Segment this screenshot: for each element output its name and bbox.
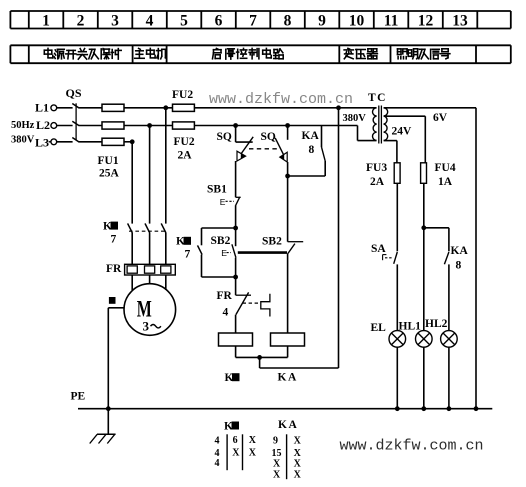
node: lamp common on PE [474,406,479,411]
node: HL2 branch tap [421,225,426,230]
svg-text:X: X [294,458,302,469]
svg-text:X: X [232,448,240,459]
svg-text:12: 12 [418,12,434,29]
svg-text:FU2: FU2 [172,89,193,101]
lamp HL1 [416,331,433,348]
node: return line tap on L1 [336,105,341,110]
wire control return line to L1 [338,108,340,368]
fuse FU4 [421,163,427,184]
terminal circle L2 [51,123,57,129]
svg-text:X: X [294,469,302,480]
node: HL2 on PE [447,406,452,411]
svg-text:9: 9 [318,12,326,29]
svg-text:3: 3 [111,12,119,29]
label L1 [35,101,49,115]
node: EL on PE [395,406,400,411]
header label: power switch and protection (dian yuan kai guan ji bao hu) [44,48,121,59]
label QS [66,86,82,100]
node: control branch 1 tap on L2 [233,123,238,128]
fuse FU1 pole 3 [102,138,124,145]
svg-text:EL: EL [371,322,387,334]
motor frame earth connection [108,297,124,409]
thermal relay FR contact (NC) [236,277,270,333]
svg-text:FU3: FU3 [366,162,387,174]
watermark www.dzkfw.com.cn (top, grey) [209,91,353,108]
svg-text:4: 4 [215,448,220,459]
svg-text:7: 7 [249,12,257,29]
label FU4 1A [435,162,456,188]
label FU3 2A [366,162,387,188]
contactor coil KM [219,333,253,346]
svg-text:7: 7 [185,249,191,261]
wire motor phase drops to KM contacts [132,108,166,224]
svg-text:HL1: HL1 [399,321,422,333]
wire EL to PE bar [396,347,398,409]
wire L1 from FU1 to FU2 [124,107,173,109]
KM contact usage table [215,434,257,470]
svg-text:380V: 380V [343,113,367,124]
label L2 [36,118,50,132]
svg-text:KA: KA [278,419,298,431]
label KA (coil) [278,372,298,384]
header label: lighting and signal (zhao ming ji xin hao) [398,49,450,59]
label 380V supply [11,135,35,146]
limit switch SQ contact 1 [236,126,254,198]
label 6V [433,112,448,124]
pushbutton SB1 (NC) [220,197,241,228]
svg-text:X: X [249,435,257,446]
pushbutton SB2 (NO, start) [221,228,236,277]
svg-text:E: E [220,197,226,207]
motor M 3~ [124,284,176,336]
svg-text:2A: 2A [370,176,385,188]
svg-text:24V: 24V [392,126,413,138]
pushbutton SB2 (NC half) [288,176,304,333]
svg-text:4: 4 [146,12,154,29]
svg-text:KA: KA [278,372,298,384]
label 380V (TC primary) [343,113,367,124]
svg-text:15: 15 [272,448,282,459]
svg-text:SB1: SB1 [207,183,227,195]
node: parallel box top [233,226,238,231]
label SQ (right) [261,131,276,143]
node: control branch 2 tap on L2 [285,123,290,128]
svg-text:X: X [294,448,302,459]
svg-text:4: 4 [223,306,229,318]
label 50Hz [11,120,35,131]
svg-text:FR: FR [106,263,122,275]
label 25A [99,168,120,180]
svg-text:SQ: SQ [261,131,276,143]
node: L1 tap to motor branch [163,105,168,110]
label KM (contact table header) [224,420,239,432]
switch SA (lighting) [383,252,398,331]
svg-text:2A: 2A [178,150,193,162]
svg-text:E: E [221,248,227,258]
wire FU3 to switch SA [396,183,398,251]
label KA (contact table header) [278,419,298,431]
svg-text:FU1: FU1 [98,155,119,167]
svg-text:380V: 380V [11,135,35,146]
svg-text:SA: SA [371,243,386,255]
svg-text:50Hz: 50Hz [11,120,35,131]
svg-text:FU4: FU4 [435,162,456,174]
node: parallel box bottom [233,275,238,280]
contactor KM main contacts [128,223,166,264]
transformer TC core [379,106,382,144]
fuse FU2 pole 2 [173,122,195,129]
svg-text:PE: PE [71,391,86,403]
svg-text:9: 9 [273,436,278,447]
wire parallel branch (KM self-hold loop) [202,228,236,277]
label SB2 (NO) [211,235,231,247]
wire HL1 to PE bar [423,347,425,409]
contactor KM auxiliary contact (self-hold) [198,245,203,254]
svg-text:L3: L3 [35,136,49,150]
label KM 7 (aux contact) [176,236,191,261]
label SQ (left) [217,131,232,143]
node: KA branch joins SQ2 branch [285,174,290,179]
svg-text:X: X [294,436,302,447]
svg-text:4: 4 [215,435,220,446]
PE protective earth bar [78,408,492,410]
wire HL2 to PE bar [448,347,450,409]
fuse FU2 pole 1 [173,104,195,111]
terminal circle L3 [49,139,57,145]
svg-text:8: 8 [456,260,462,272]
svg-text:www.dzkfw.com.cn: www.dzkfw.com.cn [340,438,484,455]
wires FR to motor [132,275,166,290]
node: L2 tap to motor branch [147,123,152,128]
label HL1 [399,321,422,333]
watermark www.dzkfw.com.cn (bottom right, dark) [340,438,484,455]
svg-text:TC: TC [368,92,387,104]
svg-text:10: 10 [349,12,365,29]
svg-text:8: 8 [284,12,292,29]
svg-text:SB2: SB2 [262,236,282,248]
header label: transformer (bian ya qi) [344,48,377,58]
label SB2 (NC) [262,236,282,248]
svg-text:11: 11 [384,12,399,29]
svg-text:FR: FR [217,290,233,302]
svg-text:KA: KA [451,245,469,257]
svg-text:KA: KA [302,130,320,142]
ground symbol [90,409,116,444]
svg-text:L2: L2 [36,118,50,132]
label TC [368,92,387,104]
header label: start-stop control circuit (qi ting kong zhi dian lu) [213,48,284,59]
header row 2: section strip [10,45,510,63]
wire L3 from FU1 to branch [124,141,132,143]
node: coil bottom junction [257,355,262,360]
wire secondary top to lamp common [384,108,476,409]
header label: main motor (zhu dian ji) [135,48,167,58]
label FU2 (top) [172,89,193,101]
node: motor earth on PE [106,406,111,411]
wire FU4 down to HL1 [423,183,425,330]
fuse FU1 pole 2 [102,122,124,129]
disconnect switch QS [57,103,102,142]
fuse FU1 pole 1 [102,104,124,111]
label KM (coil) [225,372,240,384]
wire branch to KA lamp contact [424,228,449,252]
header row 1 numbers 1-13 [42,12,468,29]
relay contact KA (lamp) [444,252,449,331]
thermal relay FR heater box [125,264,176,275]
wire L2 from FU2 to TC primary bottom [194,126,376,141]
wire secondary 6V tap to FU4 [385,116,425,163]
label FR 4 (control contact) [217,290,233,319]
svg-text:2: 2 [77,12,85,29]
label 24V [392,126,413,138]
label L3 [35,136,49,150]
KA contact usage table [272,434,302,480]
label KA 8 (upper contact) [302,130,320,156]
label FU1 [98,155,119,167]
svg-text:25A: 25A [99,168,120,180]
label KA 8 (lamp contact) [451,245,469,272]
label PE [71,391,86,403]
label KM 7 (main contacts) [103,220,118,245]
svg-text:X: X [273,458,281,469]
svg-text:SB2: SB2 [211,235,231,247]
label SB1 [207,183,227,195]
wire secondary bottom to FU3 [384,141,397,163]
svg-text:FU2: FU2 [174,136,195,148]
mechanical link SB2 compound button [238,251,287,254]
relay contact KA (upper) [288,126,326,177]
svg-text:6: 6 [233,435,238,446]
svg-text:13: 13 [452,12,468,29]
svg-text:L1: L1 [35,101,49,115]
svg-text:8: 8 [309,144,315,156]
svg-text:6: 6 [215,12,223,29]
svg-text:QS: QS [66,86,82,100]
wire L1 from FU2 to TC primary [194,107,376,109]
lamp EL (machine light) [389,331,406,348]
svg-text:www.dzkfw.com.cn: www.dzkfw.com.cn [209,91,353,108]
svg-text:X: X [273,469,281,480]
svg-text:6V: 6V [433,112,448,124]
wire L2 from FU1 to FU2 [124,125,173,127]
svg-text:3: 3 [143,319,150,334]
fuse FU3 [394,163,400,184]
svg-text:5: 5 [180,12,188,29]
node: HL1 on PE [421,406,426,411]
svg-text:SQ: SQ [217,131,232,143]
svg-text:HL2: HL2 [425,318,448,330]
limit switch SQ contact 2 [275,126,287,177]
transformer TC secondary winding [384,108,388,141]
label FR (heater) [106,263,122,275]
relay coil KA [271,333,305,346]
label HL2 [425,318,448,330]
svg-text:1: 1 [42,12,50,29]
wire coil bottoms to return [236,346,339,368]
label SA [371,243,386,255]
svg-text:1A: 1A [438,176,453,188]
lamp HL2 [441,331,458,348]
svg-text:4: 4 [215,458,220,469]
header row 1: numbered column strip [10,11,510,29]
mechanical link between SQ contacts [249,148,280,150]
node: L3 tap to motor branch [130,139,135,144]
svg-text:X: X [249,448,257,459]
label FU2 2A [174,136,195,162]
transformer TC primary winding 380V [373,108,377,141]
svg-text:7: 7 [111,234,117,246]
label EL [371,322,387,334]
terminal circle L1 [51,105,57,111]
